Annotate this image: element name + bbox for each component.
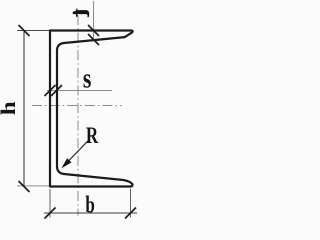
svg-text:t: t xyxy=(65,8,96,18)
svg-text:b: b xyxy=(85,191,94,219)
svg-text:h: h xyxy=(0,101,20,115)
svg-text:s: s xyxy=(83,64,92,94)
svg-text:R: R xyxy=(86,124,99,149)
